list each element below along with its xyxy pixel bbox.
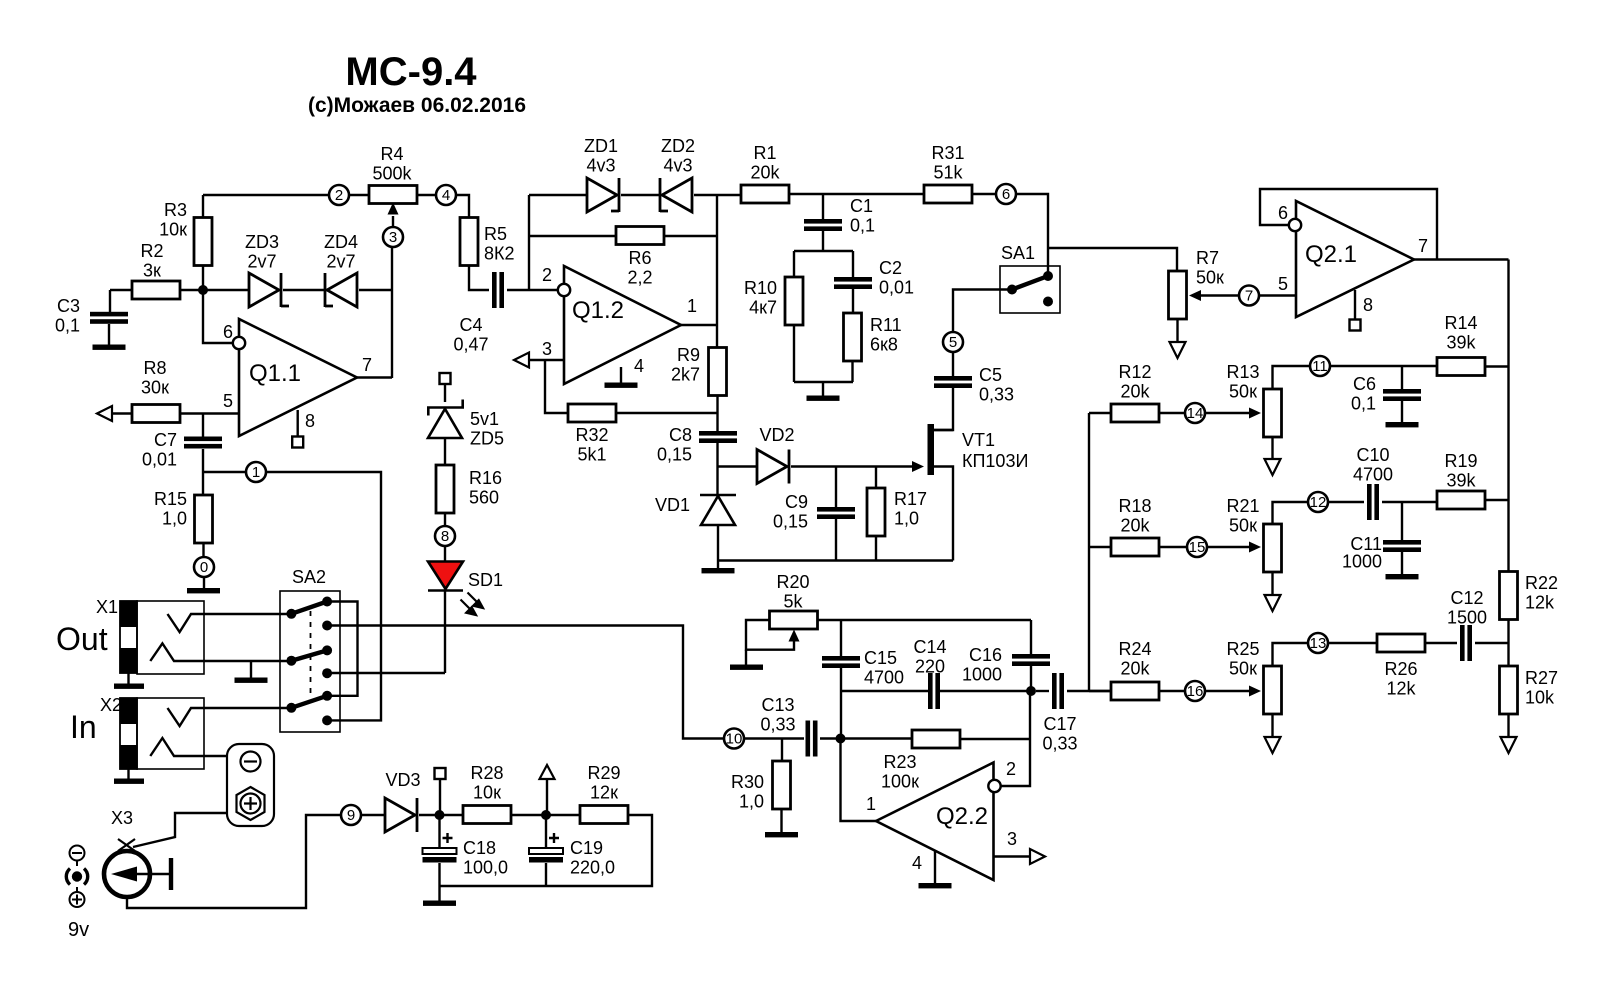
jack X1 connector body: [120, 601, 204, 674]
C11 ground stem: [1401, 552, 1403, 575]
R20 ground stem: [745, 650, 747, 665]
svg-text:R18: R18: [1118, 496, 1151, 516]
wire C7 to R15 through node1 row: [202, 449, 204, 496]
Q1.1 pin 8 stub: [297, 410, 299, 437]
svg-text:20k: 20k: [1120, 659, 1150, 679]
Q1.2 pin 4 ground stem: [620, 367, 622, 383]
svg-text:VD2: VD2: [759, 425, 794, 445]
wire ZD1 to ZD2: [621, 194, 660, 196]
SA2 switch bar pole 2: [291, 650, 327, 660]
label R27 10k: [1525, 668, 1558, 708]
label R12 20k: [1118, 362, 1151, 402]
switch SA2 box: [280, 591, 340, 732]
svg-text:In: In: [70, 709, 97, 745]
zener ZD4: [325, 273, 357, 307]
wire junction to C17: [1036, 690, 1049, 692]
svg-text:12k: 12k: [1525, 593, 1555, 613]
junction dot R28/C19: [541, 810, 551, 820]
wire R9 to C8: [716, 395, 718, 432]
wire R10 bottom: [793, 325, 795, 382]
svg-text:X1: X1: [96, 597, 118, 617]
svg-text:0,33: 0,33: [1042, 734, 1077, 754]
wire down to C6: [1401, 366, 1403, 389]
R25 wiper arrowhead: [1249, 686, 1261, 697]
label R28 10k: [470, 763, 503, 803]
R21 wiper arrowhead: [1249, 542, 1261, 553]
X1 sleeve stem: [127, 673, 129, 684]
label C8 0,15: [657, 425, 692, 465]
resistor R6: [616, 227, 664, 245]
svg-text:Q2.1: Q2.1: [1305, 241, 1357, 268]
wire C16 to junction: [1030, 666, 1032, 691]
polarity symbol minus: [70, 846, 85, 867]
LED SD1 (red): [428, 562, 463, 591]
SA2 switch bar pole 3: [291, 696, 327, 708]
svg-text:11: 11: [1312, 358, 1328, 375]
svg-text:R29: R29: [587, 763, 620, 783]
capacitor C15: [822, 656, 860, 668]
label C7 0,01: [142, 430, 177, 470]
ground arrow under R27: [1501, 737, 1517, 753]
label R7 50k: [1196, 248, 1224, 288]
label R20 5k: [776, 572, 809, 612]
svg-text:C5: C5: [979, 365, 1002, 385]
wire R16 to node 8: [444, 513, 446, 526]
svg-text:R23: R23: [883, 752, 916, 772]
wire pin3 branch to R32: [545, 360, 568, 413]
wire to ZD1: [529, 194, 587, 196]
op-amp Q2.1 triangle: [1296, 201, 1414, 317]
svg-text:R5: R5: [484, 224, 507, 244]
label C10 4700: [1353, 445, 1393, 485]
ground arrow under R25: [1265, 737, 1281, 753]
svg-text:220: 220: [915, 657, 945, 677]
svg-text:4к7: 4к7: [749, 298, 777, 318]
capacitor C3: [90, 312, 128, 324]
capacitor C10: [1367, 484, 1379, 520]
node 10: [724, 729, 744, 749]
wire R32 to rail: [616, 412, 717, 414]
svg-text:R11: R11: [870, 315, 902, 335]
potentiometer R7 body: [1169, 271, 1187, 319]
svg-text:КП103И: КП103И: [962, 451, 1028, 471]
svg-text:R13: R13: [1226, 362, 1259, 382]
label R29 12k: [587, 763, 620, 803]
svg-text:3: 3: [389, 229, 397, 246]
label R19 39k: [1444, 451, 1477, 491]
battery minus terminal: [241, 752, 261, 772]
label R16 560: [469, 468, 502, 508]
wire R18 to node 15: [1159, 546, 1187, 548]
wire junction to pin 6: [203, 290, 233, 343]
svg-text:X2: X2: [100, 695, 122, 715]
svg-text:R32: R32: [575, 425, 608, 445]
terminal square +9v: [435, 768, 446, 779]
svg-text:ZD3: ZD3: [245, 232, 279, 252]
svg-text:0,15: 0,15: [773, 512, 808, 532]
ground stem bottom rail: [717, 561, 719, 570]
svg-text:C1: C1: [850, 196, 873, 216]
transistor VT1 channel bar: [928, 424, 935, 475]
svg-text:4: 4: [912, 853, 922, 873]
svg-text:8К2: 8К2: [484, 244, 515, 264]
ground under R10/R11: [807, 396, 840, 401]
open arrow output Q2.2: [1030, 849, 1045, 864]
wire Q1.1 pin7 output: [357, 376, 392, 378]
junction dot VD3/C18: [435, 810, 445, 820]
terminal square pin 8 Q1.1: [292, 437, 303, 448]
ground on X1 ring wire: [235, 678, 268, 683]
svg-text:5v1: 5v1: [470, 409, 499, 429]
wire R24 to node 16: [1159, 690, 1185, 692]
resistor R16: [436, 465, 454, 513]
label R26 12k: [1384, 659, 1417, 699]
label C19 220,0: [570, 838, 615, 878]
wire to node 1: [203, 471, 246, 473]
svg-text:2v7: 2v7: [326, 252, 355, 272]
R4 wiper arrow from node 3: [392, 216, 394, 227]
wire terminal to ZD5: [444, 384, 446, 402]
wire C15 to rail and pin1 node: [840, 668, 842, 739]
svg-text:R2: R2: [140, 241, 163, 261]
X2 sleeve stem: [127, 769, 129, 779]
wire node9 to VD3: [361, 814, 385, 816]
wire node4 to R5 top: [456, 195, 469, 218]
wire R21 top to node 12: [1273, 502, 1309, 524]
node 5: [943, 332, 963, 352]
wire node13 to R26: [1328, 642, 1377, 644]
wire Q1.2 pin1 output: [681, 324, 717, 326]
svg-text:15: 15: [1189, 539, 1206, 556]
svg-text:SD1: SD1: [468, 570, 503, 590]
svg-text:2k7: 2k7: [671, 365, 700, 385]
resistor R23: [912, 730, 960, 748]
wire SA1 branch to R7 top: [1048, 248, 1177, 273]
open arrow input R8: [97, 406, 112, 421]
svg-text:6к8: 6к8: [870, 335, 898, 355]
label R30 1,0: [731, 772, 764, 812]
svg-text:39k: 39k: [1446, 471, 1476, 491]
bottom rail y560: [718, 559, 954, 561]
wire X3 to node 9: [127, 815, 341, 908]
wire C3 to R2: [110, 289, 132, 291]
capacitor C16: [1012, 654, 1050, 666]
resistor R30: [773, 761, 791, 809]
wire SA2 throw4 to SD1: [327, 672, 445, 674]
node 0 ground stem: [203, 577, 205, 589]
svg-text:R6: R6: [628, 248, 651, 268]
node 13: [1308, 633, 1328, 653]
svg-text:7: 7: [1245, 288, 1253, 305]
wire R4 to node 4: [417, 194, 436, 196]
resistor R26: [1377, 634, 1425, 652]
svg-text:8: 8: [1363, 295, 1373, 315]
wire C5 to VT1 source: [934, 388, 953, 430]
label C13 0,33: [760, 695, 795, 735]
svg-text:VD3: VD3: [385, 770, 420, 790]
wire ZD3 to ZD4: [283, 289, 325, 291]
wire C17 to R24 crossing rail: [1067, 690, 1112, 692]
svg-text:R8: R8: [143, 358, 166, 378]
wire to R10 top: [793, 251, 795, 277]
svg-text:C15: C15: [864, 648, 897, 668]
wire R28 to R29: [511, 814, 580, 816]
svg-text:4700: 4700: [1353, 465, 1393, 485]
wire down to C15: [840, 620, 842, 656]
zener ZD1: [587, 178, 619, 212]
ground under node 0: [187, 588, 220, 593]
node 16: [1185, 681, 1205, 701]
wire node7 to Q2.1 pin 5: [1259, 294, 1296, 296]
svg-text:R17: R17: [894, 489, 927, 509]
label C1 0,1: [850, 196, 875, 236]
potentiometer R4 body: [369, 186, 417, 204]
label R22 12k: [1525, 573, 1558, 613]
label C5 0,33: [979, 365, 1014, 405]
wire Q1.1 output up to node 3: [391, 247, 393, 378]
resistor R31: [924, 185, 972, 203]
X3 center pin arrow: [111, 858, 171, 890]
label C14 220: [913, 637, 946, 677]
wire to R3 top: [202, 195, 204, 218]
svg-text:500k: 500k: [372, 164, 412, 184]
potentiometer R25 body: [1264, 666, 1282, 714]
rail x717 upper: [716, 195, 718, 348]
label C18 100,0: [463, 838, 508, 878]
svg-text:Q2.2: Q2.2: [936, 803, 988, 830]
resistor R19: [1437, 491, 1485, 509]
svg-text:10к: 10к: [473, 783, 501, 803]
R21 bottom stem: [1271, 572, 1273, 595]
resistor R1: [741, 185, 789, 203]
X1 tip contact to SA2 pole1: [168, 614, 292, 632]
svg-text:1,0: 1,0: [894, 509, 919, 529]
svg-text:6: 6: [1278, 203, 1288, 223]
ground arrow under R21: [1265, 595, 1281, 611]
capacitor C14: [928, 673, 940, 709]
node 7: [1239, 286, 1259, 306]
label C12 1500: [1447, 588, 1487, 628]
resistor R29: [580, 806, 628, 824]
svg-text:2,2: 2,2: [627, 268, 652, 288]
svg-text:5k: 5k: [783, 592, 803, 612]
svg-text:8: 8: [305, 411, 315, 431]
wire node10 to C13: [744, 737, 804, 739]
R13 bottom stem: [1271, 437, 1273, 459]
wire VD1 to bottom rail: [717, 525, 719, 561]
X1 ring contact to SA2 pole2: [150, 643, 291, 661]
R13 wiper arrowhead: [1249, 408, 1261, 419]
svg-text:R20: R20: [776, 572, 809, 592]
svg-text:ZD2: ZD2: [661, 136, 695, 156]
svg-text:R9: R9: [677, 345, 700, 365]
svg-text:4: 4: [442, 187, 450, 204]
wire node6 down to SA1: [1016, 194, 1048, 276]
wire C19 to bottom rail: [545, 863, 547, 886]
svg-text:50к: 50к: [1196, 268, 1224, 288]
svg-text:SA2: SA2: [292, 567, 326, 587]
wire R6 left: [529, 235, 616, 237]
svg-text:C8: C8: [669, 425, 692, 445]
svg-text:51k: 51k: [933, 163, 963, 183]
svg-text:4: 4: [634, 356, 644, 376]
svg-text:C4: C4: [459, 315, 482, 335]
svg-text:5: 5: [1278, 274, 1288, 294]
label ZD1 4v3: [584, 136, 618, 176]
svg-text:R28: R28: [470, 763, 503, 783]
wire top feedback y195 left of node 2: [203, 194, 329, 196]
svg-text:2: 2: [1006, 759, 1016, 779]
wire R5 to C4: [469, 265, 489, 290]
svg-text:1,0: 1,0: [162, 509, 187, 529]
long wire SA2 throw2 to node 10: [327, 626, 724, 739]
svg-text:R10: R10: [744, 278, 777, 298]
svg-text:C2: C2: [879, 258, 902, 278]
svg-text:12к: 12к: [590, 783, 618, 803]
capacitor C5: [934, 376, 972, 388]
wire C1 to bracket: [822, 231, 824, 251]
label R14 39k: [1444, 313, 1477, 353]
label R18 20k: [1118, 496, 1151, 536]
svg-text:5k1: 5k1: [577, 445, 606, 465]
R7 wiper arrowhead: [1189, 290, 1201, 301]
wire C8 down to VD1: [716, 442, 718, 495]
svg-text:50к: 50к: [1229, 382, 1257, 402]
svg-text:6: 6: [1002, 186, 1010, 203]
wire down to C9: [835, 467, 837, 508]
svg-text:50к: 50к: [1229, 516, 1257, 536]
wire ZD5 to R16: [444, 438, 446, 465]
diode VD1 (vertical): [700, 495, 736, 525]
svg-text:0,1: 0,1: [850, 216, 875, 236]
junction dot C13/R23/pin1: [836, 734, 846, 744]
X2 tip contact to SA2 pole3: [168, 708, 292, 726]
svg-text:R24: R24: [1118, 639, 1151, 659]
svg-text:8: 8: [441, 528, 449, 545]
ground under X2: [114, 779, 144, 784]
resistor R32: [568, 404, 616, 422]
node 0: [194, 557, 214, 577]
svg-text:1: 1: [252, 464, 260, 481]
svg-text:4700: 4700: [864, 668, 904, 688]
wire Q2.1 pin7 output: [1414, 258, 1509, 260]
capacitor C18 (polarized): [423, 833, 457, 863]
label C17 0,33: [1042, 714, 1077, 754]
capacitor C1: [804, 219, 842, 231]
bracket bottom R10/R11: [794, 381, 853, 383]
wire R3 bottom to junction: [202, 265, 204, 290]
label R10 4k7: [744, 278, 777, 318]
R4 wiper arrowhead: [388, 203, 399, 215]
wire ZD2 to R1 via rail: [694, 194, 741, 196]
svg-text:50к: 50к: [1229, 659, 1257, 679]
wire C18 to ground: [438, 863, 440, 901]
wire node8 to SD1: [444, 546, 446, 562]
capacitor C2: [834, 277, 872, 289]
svg-text:R31: R31: [931, 143, 964, 163]
label R5 8K2: [484, 224, 515, 264]
Q1.1 inverting input circle pin 6: [233, 337, 245, 349]
resistor R15: [195, 495, 213, 543]
wire C17 node down to pin 2: [1001, 691, 1030, 786]
rail y691 right of C14: [939, 690, 1031, 692]
capacitor C13: [806, 721, 818, 757]
label R2 3k: [140, 241, 163, 281]
wire junction to C19: [545, 815, 547, 848]
label ZD2 4v3: [661, 136, 695, 176]
X3 plug cross mark: [118, 839, 135, 851]
capacitor C9: [817, 507, 855, 519]
svg-text:Q1.1: Q1.1: [249, 360, 301, 387]
label R8 30k: [141, 358, 169, 398]
svg-text:5: 5: [223, 391, 233, 411]
svg-text:6: 6: [223, 322, 233, 342]
label ZD5 5v1: [470, 409, 504, 449]
svg-text:4v3: 4v3: [586, 156, 615, 176]
node 8: [435, 526, 455, 546]
svg-text:ZD1: ZD1: [584, 136, 618, 156]
wire SA1 pole to node 5: [953, 290, 1012, 333]
resistor R18: [1111, 538, 1159, 556]
label C15 4700: [864, 648, 904, 688]
wire R12 to node 14: [1159, 412, 1185, 414]
wire node16 arrow lead: [1205, 690, 1251, 692]
capacitor C12: [1460, 625, 1472, 661]
resistor R8: [132, 405, 180, 423]
svg-text:1: 1: [687, 296, 697, 316]
SA1 pole contact: [1007, 285, 1017, 295]
wire down to C11: [1401, 502, 1403, 540]
svg-text:3к: 3к: [143, 261, 161, 281]
wire R17 to rail: [875, 536, 877, 561]
SD1 light arrows: [461, 593, 484, 616]
wire down to C7: [202, 414, 204, 438]
right rail R22-R27: [1507, 619, 1509, 666]
svg-text:0,1: 0,1: [1351, 394, 1376, 414]
wire Q2.2 pin3 output: [994, 855, 1031, 857]
svg-text:Out: Out: [56, 621, 108, 657]
label R4 500k: [372, 144, 412, 184]
jack X2 connector body: [120, 698, 204, 769]
wire R19 to right rail: [1485, 499, 1508, 501]
terminal square pin 8 Q2.1: [1350, 320, 1361, 331]
svg-text:1000: 1000: [962, 665, 1002, 685]
svg-text:12k: 12k: [1386, 679, 1416, 699]
svg-text:Q1.2: Q1.2: [572, 297, 624, 324]
svg-text:10: 10: [726, 731, 743, 748]
ground pin 4 Q1.2: [605, 383, 638, 388]
label VD2: [759, 425, 794, 445]
svg-text:SA1: SA1: [1001, 243, 1035, 263]
Q2.1 feedback loop: [1260, 189, 1437, 260]
node 14: [1185, 403, 1205, 423]
label VD3: [385, 770, 420, 790]
label VT1 KP103I: [962, 430, 1028, 471]
Q2.1 pin 8 stub: [1354, 290, 1356, 319]
SA2 gang dashed line: [310, 611, 312, 696]
svg-text:2: 2: [542, 265, 552, 285]
power arrow above C19: [540, 765, 555, 779]
junction dot R2/R3/ZD3/pin6: [198, 285, 208, 295]
X2 ring contact to battery: [150, 738, 227, 756]
wire junction down to Q2.2 pin 1: [841, 739, 877, 822]
svg-text:R21: R21: [1226, 496, 1259, 516]
battery connector X-jack body: [227, 744, 274, 826]
battery plus terminal (hex nut): [237, 787, 265, 820]
svg-text:16: 16: [1187, 683, 1204, 700]
label R23 100k: [881, 752, 919, 792]
capacitor C6: [1383, 389, 1421, 401]
